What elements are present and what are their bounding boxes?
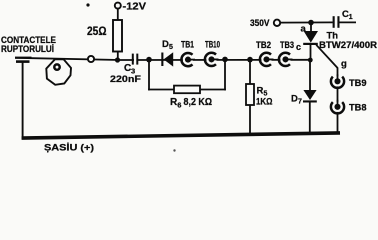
svg-text:c: c	[296, 42, 301, 52]
svg-text:7: 7	[298, 98, 302, 105]
terminal -12V	[115, 3, 121, 9]
wire thyristor cathode to bus	[310, 45, 312, 61]
wire 350V to C1	[280, 21, 333, 23]
wire anode a to thyristor	[310, 23, 312, 32]
terminal TB2	[261, 54, 271, 64]
svg-text:TB1: TB1	[181, 40, 194, 50]
capacitor C3 gap	[134, 59, 137, 62]
svg-text:350V: 350V	[250, 18, 270, 28]
node junction cathode/bus	[308, 58, 313, 63]
wire gate diagonal	[316, 45, 337, 68]
node junction bus/R5	[247, 57, 253, 63]
terminal 350V	[274, 20, 280, 26]
svg-text:TB3: TB3	[280, 40, 294, 50]
diode D5 cathode bar	[161, 53, 163, 67]
svg-text:BTW27/400R: BTW27/400R	[319, 40, 378, 50]
terminal TB9	[332, 76, 342, 86]
wire R6 branch right riser	[224, 59, 226, 90]
wire D7 branch lower	[309, 103, 311, 136]
wire R5 branch lower	[249, 105, 251, 136]
diode D5 triangle	[164, 52, 174, 66]
wire R6 branch bottom left	[148, 89, 174, 91]
wire D7 branch upper	[309, 60, 311, 91]
svg-text:D: D	[162, 39, 169, 50]
svg-text:5: 5	[169, 44, 173, 51]
wire R6 branch bottom right	[200, 89, 226, 91]
terminal TB10	[206, 54, 216, 64]
svg-text:6: 6	[177, 100, 181, 109]
svg-text:8,2 KΩ: 8,2 KΩ	[184, 97, 213, 108]
svg-text:g: g	[341, 59, 347, 70]
capacitor C3 plates	[132, 54, 134, 65]
wire -12V to resistor	[117, 9, 119, 21]
svg-text:1: 1	[349, 14, 353, 21]
terminal TB1	[183, 54, 193, 64]
svg-text:D: D	[291, 94, 298, 105]
wire R5 branch upper	[249, 60, 251, 85]
svg-text:1KΩ: 1KΩ	[256, 97, 273, 108]
node junction bus/25ohm	[115, 57, 120, 62]
wire main bus (breaker contact to thyristor cathode node)	[15, 58, 311, 60]
svg-text:-12V: -12V	[123, 2, 147, 13]
diode D7 cathode bar	[303, 100, 317, 102]
resistor R5	[246, 84, 254, 105]
stray ink dot bottom	[173, 149, 175, 151]
cam pivot circle	[54, 64, 59, 69]
svg-text:TB2: TB2	[256, 40, 271, 50]
terminal TB3	[280, 54, 290, 64]
node junction bus/R6-right	[222, 57, 228, 63]
wire resistor to bus	[117, 52, 119, 61]
svg-text:TB8: TB8	[349, 103, 367, 113]
cam octagon of breaker	[46, 59, 71, 85]
wire gate vertical to rail	[337, 68, 339, 135]
node junction bus/R6-left	[146, 57, 152, 63]
capacitor C1 plates	[333, 16, 335, 28]
wire contact to chassis rail	[22, 63, 24, 140]
node a junction	[308, 20, 314, 26]
resistor 25ohm	[113, 20, 122, 52]
svg-text:TB9: TB9	[349, 78, 367, 88]
thyristor Th triangle	[304, 31, 318, 43]
breaker contact fixed bar	[15, 57, 32, 59]
diode D7 triangle	[303, 90, 316, 100]
svg-text:ȘASİU (+): ȘASİU (+)	[44, 143, 94, 153]
breaker contact moving bar	[16, 60, 30, 63]
wire C1 stub	[339, 21, 356, 23]
resistor R6	[174, 86, 200, 94]
svg-text:25Ω: 25Ω	[87, 24, 107, 38]
wire R6 branch left riser	[148, 60, 150, 91]
chassis rail SASIU(+)	[22, 133, 340, 138]
terminal (breaker output)	[88, 56, 94, 62]
terminal TB8	[332, 102, 342, 112]
svg-text:TB10: TB10	[205, 40, 220, 50]
svg-text:R: R	[257, 86, 264, 97]
svg-text:RUPTORULUİ: RUPTORULUİ	[1, 43, 54, 54]
thyristor Th cathode bar	[303, 43, 318, 45]
svg-text:220nF: 220nF	[110, 74, 141, 85]
stray ink dot top left	[86, 3, 89, 6]
